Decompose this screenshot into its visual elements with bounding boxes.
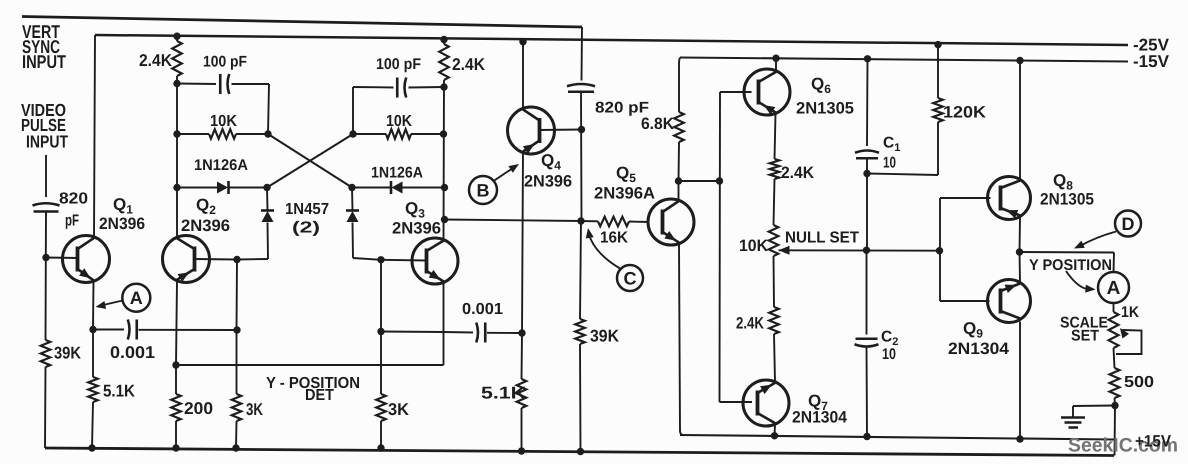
svg-text:Y POSITION: Y POSITION xyxy=(1029,257,1112,274)
svg-text:2N1304: 2N1304 xyxy=(948,340,1010,358)
svg-text:NULL SET: NULL SET xyxy=(785,230,859,247)
svg-text:2.4K: 2.4K xyxy=(452,55,486,74)
svg-text:-15V: -15V xyxy=(1133,52,1170,71)
svg-text:0.001: 0.001 xyxy=(110,343,155,362)
svg-text:INPUT: INPUT xyxy=(22,51,67,72)
svg-text:Q6: Q6 xyxy=(811,75,831,97)
svg-text:Q8: Q8 xyxy=(1053,171,1073,193)
svg-text:10K: 10K xyxy=(210,113,237,130)
svg-text:D: D xyxy=(1122,214,1135,234)
svg-text:10K: 10K xyxy=(386,113,412,130)
svg-text:DET: DET xyxy=(305,387,334,404)
svg-text:1N457: 1N457 xyxy=(285,201,329,218)
svg-text:A: A xyxy=(1107,278,1121,299)
svg-text:Q9: Q9 xyxy=(963,319,983,341)
svg-text:1N126A: 1N126A xyxy=(371,165,423,182)
svg-text:Q5: Q5 xyxy=(616,164,636,186)
svg-text:C1: C1 xyxy=(883,135,900,155)
svg-text:2.4K: 2.4K xyxy=(139,51,173,70)
svg-text:2N1305: 2N1305 xyxy=(1040,191,1094,209)
svg-text:10: 10 xyxy=(883,155,896,172)
svg-text:B: B xyxy=(477,181,490,201)
svg-text:820 pF: 820 pF xyxy=(595,100,649,117)
svg-text:2.4K: 2.4K xyxy=(781,164,814,182)
svg-text:2N396: 2N396 xyxy=(392,220,441,238)
svg-text:10: 10 xyxy=(882,346,896,363)
svg-text:1N126A: 1N126A xyxy=(194,157,248,174)
svg-text:Q3: Q3 xyxy=(405,199,425,221)
svg-text:3K: 3K xyxy=(388,400,410,419)
svg-text:Q1: Q1 xyxy=(113,195,133,217)
svg-text:Q2: Q2 xyxy=(196,196,216,218)
svg-text:A: A xyxy=(130,288,143,308)
svg-text:INPUT: INPUT xyxy=(26,132,68,152)
svg-text:1K: 1K xyxy=(1121,304,1140,321)
svg-text:2N396A: 2N396A xyxy=(594,185,655,203)
svg-text:5.1K: 5.1K xyxy=(103,382,136,401)
svg-text:6.8K: 6.8K xyxy=(641,115,674,133)
svg-text:120K: 120K xyxy=(943,104,986,122)
svg-text:2N396: 2N396 xyxy=(99,215,145,233)
svg-text:5.1K: 5.1K xyxy=(481,384,527,403)
svg-text:2N1305: 2N1305 xyxy=(796,100,854,118)
svg-text:2N396: 2N396 xyxy=(181,217,230,235)
svg-text:+15V: +15V xyxy=(1135,433,1171,451)
svg-text:39K: 39K xyxy=(54,344,82,363)
svg-text:0.001: 0.001 xyxy=(462,301,503,318)
svg-text:200: 200 xyxy=(184,399,213,418)
svg-text:Q4: Q4 xyxy=(541,151,561,173)
svg-text:3K: 3K xyxy=(246,400,264,419)
svg-text:820: 820 xyxy=(59,191,88,208)
svg-text:SET: SET xyxy=(1071,328,1099,345)
svg-text:100 pF: 100 pF xyxy=(376,56,421,73)
svg-text:100 pF: 100 pF xyxy=(203,54,247,71)
svg-text:2.4K: 2.4K xyxy=(736,315,764,333)
svg-text:2N396: 2N396 xyxy=(524,173,572,191)
svg-text:C: C xyxy=(624,269,637,289)
svg-text:2N1304: 2N1304 xyxy=(792,409,848,427)
svg-text:10K: 10K xyxy=(739,237,768,255)
svg-text:16K: 16K xyxy=(600,230,628,247)
svg-text:pF: pF xyxy=(65,213,79,230)
svg-text:39K: 39K xyxy=(590,327,620,346)
svg-text:500: 500 xyxy=(1124,374,1154,391)
svg-text:(2): (2) xyxy=(292,220,320,237)
